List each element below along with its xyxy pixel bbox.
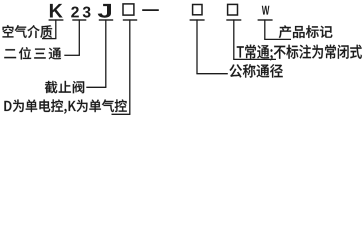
label 空气介质 (air medium) bbox=[3, 25, 53, 38]
leader line down from 23 bbox=[78, 19, 80, 55]
placeholder box 3 (normally-open flag) bbox=[228, 4, 238, 15]
dash connecting 二位三通 leader bbox=[64, 54, 80, 56]
tick bar under K bbox=[49, 19, 64, 21]
label T常通;不标注为常闭式 (NO/NC note) bbox=[237, 45, 362, 61]
dash connecting 公称通径 leader bbox=[196, 73, 227, 75]
code letter K (medium designator) bbox=[50, 4, 63, 18]
tick bar under box1 bbox=[123, 19, 137, 21]
tick bar under box3 bbox=[226, 19, 241, 21]
code letter W (product mark) bbox=[262, 6, 270, 15]
underline hook for 产品标记 leader bbox=[264, 38, 291, 40]
placeholder box 1 (control type) bbox=[123, 4, 134, 15]
label 产品标记 (product marking) bbox=[279, 25, 333, 38]
leader line down from box1 bbox=[129, 19, 131, 114]
dash connecting 截止阀 leader bbox=[86, 86, 106, 88]
tick bar under 23 bbox=[72, 19, 86, 21]
tick bar under W bbox=[258, 19, 273, 21]
code letter J (valve type) bbox=[98, 4, 111, 18]
underline hook for 空气介质 leader bbox=[42, 38, 56, 40]
placeholder box 2 (bore size) bbox=[193, 5, 202, 15]
leader line down from J bbox=[105, 19, 107, 87]
label 公称通径 (nominal bore) bbox=[229, 64, 282, 78]
underline hook for T常通 label leader bbox=[233, 58, 276, 60]
label D为单电控,K为单气控 (control codes) bbox=[4, 99, 126, 113]
hyphen separator bbox=[142, 9, 159, 11]
tick bar under J bbox=[99, 19, 113, 21]
label 截止阀 (shut-off valve) bbox=[45, 81, 84, 93]
leader line down from W bbox=[264, 19, 266, 39]
code digits 23 (function designator) bbox=[71, 7, 90, 18]
leader line down from box2 bbox=[196, 19, 198, 73]
label 二位三通 (2-position 3-way) bbox=[4, 47, 61, 59]
leader line down from K bbox=[55, 19, 57, 38]
leader line down from box3 bbox=[233, 19, 235, 59]
tick bar under box2 bbox=[190, 19, 205, 21]
model designation nomenclature diagram bbox=[0, 0, 363, 120]
underline hook for D/K label leader bbox=[112, 113, 131, 115]
